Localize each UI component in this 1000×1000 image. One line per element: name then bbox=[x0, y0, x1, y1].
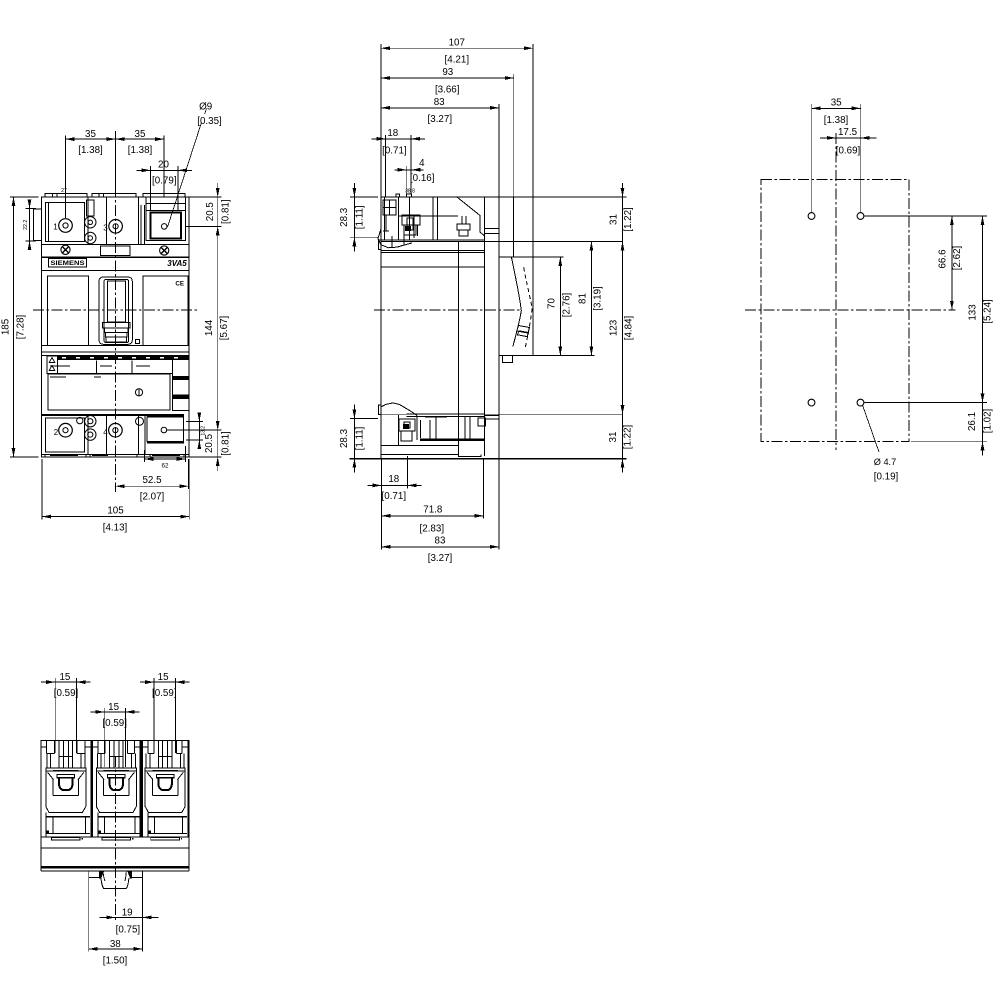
svg-text:18: 18 bbox=[387, 128, 398, 139]
svg-text:105: 105 bbox=[107, 505, 124, 516]
svg-text:1: 1 bbox=[53, 223, 58, 232]
svg-text:81: 81 bbox=[578, 293, 589, 304]
svg-text:38: 38 bbox=[110, 939, 121, 950]
svg-text:4: 4 bbox=[419, 158, 425, 169]
svg-text:28.3: 28.3 bbox=[339, 207, 350, 227]
svg-text:185: 185 bbox=[1, 318, 12, 335]
svg-text:70: 70 bbox=[547, 298, 558, 309]
svg-text:35: 35 bbox=[85, 129, 96, 140]
svg-text:2: 2 bbox=[54, 428, 59, 437]
svg-text:[2.76]: [2.76] bbox=[562, 292, 573, 317]
svg-text:[5.67]: [5.67] bbox=[219, 315, 230, 340]
svg-text:71.8: 71.8 bbox=[423, 505, 443, 516]
svg-text:[1.38]: [1.38] bbox=[128, 145, 153, 156]
svg-text:20.5: 20.5 bbox=[205, 202, 216, 222]
svg-text:[1.22]: [1.22] bbox=[623, 207, 634, 232]
svg-text:[0.16]: [0.16] bbox=[410, 173, 435, 184]
svg-text:66.6: 66.6 bbox=[938, 249, 949, 269]
svg-text:26.1: 26.1 bbox=[967, 412, 978, 431]
svg-text:[0.35]: [0.35] bbox=[197, 116, 222, 127]
svg-text:35: 35 bbox=[831, 98, 842, 109]
svg-text:93: 93 bbox=[442, 67, 453, 78]
svg-text:[3.27]: [3.27] bbox=[428, 553, 453, 564]
svg-text:83: 83 bbox=[435, 536, 446, 547]
svg-text:28.3: 28.3 bbox=[339, 428, 350, 448]
svg-text:15: 15 bbox=[108, 702, 119, 713]
svg-text:15: 15 bbox=[59, 672, 70, 683]
svg-text:[2.62]: [2.62] bbox=[952, 245, 963, 270]
svg-text:19: 19 bbox=[122, 908, 133, 919]
svg-text:Ø9: Ø9 bbox=[199, 102, 212, 113]
svg-text:[0.79]: [0.79] bbox=[152, 176, 177, 187]
svg-text:[0.71]: [0.71] bbox=[382, 491, 407, 502]
svg-text:[0.81]: [0.81] bbox=[221, 199, 232, 224]
svg-text:[0.75]: [0.75] bbox=[116, 924, 141, 935]
svg-text:[0.59]: [0.59] bbox=[102, 718, 127, 729]
svg-text:[1.11]: [1.11] bbox=[355, 205, 366, 229]
svg-text:[1.50]: [1.50] bbox=[103, 956, 128, 967]
svg-text:20: 20 bbox=[158, 160, 169, 171]
svg-text:CE: CE bbox=[175, 281, 184, 288]
svg-text:[2.83]: [2.83] bbox=[420, 524, 445, 535]
svg-text:[0.59]: [0.59] bbox=[152, 688, 177, 699]
svg-text:18: 18 bbox=[388, 474, 399, 485]
svg-text:[0.59]: [0.59] bbox=[54, 688, 79, 699]
svg-text:3: 3 bbox=[103, 224, 108, 233]
svg-text:Ø 4.7: Ø 4.7 bbox=[874, 457, 896, 467]
svg-text:13.2: 13.2 bbox=[201, 426, 207, 436]
svg-text:[0.19]: [0.19] bbox=[874, 472, 899, 483]
svg-text:144: 144 bbox=[204, 319, 215, 336]
svg-text:133: 133 bbox=[968, 304, 979, 321]
svg-text:22.2: 22.2 bbox=[23, 220, 29, 230]
svg-text:[4.13]: [4.13] bbox=[103, 523, 128, 534]
svg-text:15: 15 bbox=[158, 672, 169, 683]
svg-text:[1.38]: [1.38] bbox=[824, 115, 849, 126]
svg-text:31: 31 bbox=[608, 432, 619, 443]
svg-text:[5.24]: [5.24] bbox=[983, 299, 994, 324]
svg-text:[0.71]: [0.71] bbox=[382, 146, 407, 157]
svg-text:SIEMENS: SIEMENS bbox=[51, 260, 86, 267]
svg-text:[1.02]: [1.02] bbox=[983, 408, 994, 433]
svg-text:52.5: 52.5 bbox=[142, 475, 162, 486]
svg-text:4: 4 bbox=[103, 428, 108, 437]
svg-text:[7.28]: [7.28] bbox=[16, 314, 27, 339]
svg-text:62: 62 bbox=[161, 463, 169, 470]
svg-text:[1.22]: [1.22] bbox=[623, 424, 634, 449]
svg-text:[1.11]: [1.11] bbox=[355, 426, 366, 450]
svg-text:[0.81]: [0.81] bbox=[221, 431, 232, 456]
svg-text:[0.69]: [0.69] bbox=[836, 146, 861, 157]
svg-text:[4.21]: [4.21] bbox=[445, 54, 470, 65]
svg-text:107: 107 bbox=[449, 37, 465, 48]
svg-text:[1.38]: [1.38] bbox=[78, 145, 103, 156]
svg-text:17.5: 17.5 bbox=[838, 127, 858, 138]
svg-text:[3.66]: [3.66] bbox=[435, 84, 460, 95]
svg-text:3VA5: 3VA5 bbox=[167, 259, 187, 268]
svg-text:123: 123 bbox=[609, 319, 620, 336]
svg-text:[3.19]: [3.19] bbox=[593, 286, 604, 311]
svg-text:31: 31 bbox=[609, 214, 620, 225]
svg-text:83: 83 bbox=[434, 97, 445, 108]
svg-text:[2.07]: [2.07] bbox=[140, 492, 165, 503]
svg-text:[3.27]: [3.27] bbox=[428, 114, 453, 125]
svg-text:35: 35 bbox=[135, 129, 146, 140]
svg-text:[4.84]: [4.84] bbox=[624, 315, 635, 340]
